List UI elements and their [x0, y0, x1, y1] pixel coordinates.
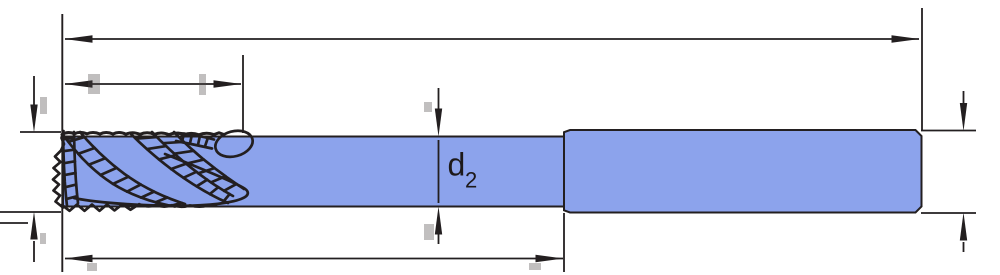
svg-text:d: d [448, 147, 466, 183]
svg-text:2: 2 [465, 168, 477, 193]
